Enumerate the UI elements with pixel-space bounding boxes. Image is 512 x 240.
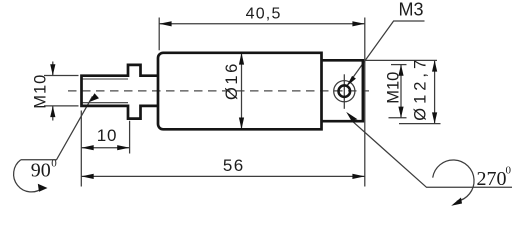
svg-text:40,5: 40,5 bbox=[246, 6, 282, 23]
svg-text:56: 56 bbox=[223, 156, 245, 175]
svg-text:M3: M3 bbox=[398, 0, 423, 20]
svg-text:M10: M10 bbox=[31, 74, 49, 109]
svg-text:270: 270 bbox=[477, 168, 507, 190]
svg-text:10: 10 bbox=[97, 126, 118, 145]
svg-text:90: 90 bbox=[31, 160, 51, 182]
svg-text:0: 0 bbox=[51, 158, 57, 170]
svg-text:M10: M10 bbox=[385, 72, 403, 104]
svg-text:Ø12,7: Ø12,7 bbox=[411, 56, 429, 121]
svg-text:0: 0 bbox=[506, 165, 512, 177]
svg-text:Ø16: Ø16 bbox=[223, 61, 241, 100]
